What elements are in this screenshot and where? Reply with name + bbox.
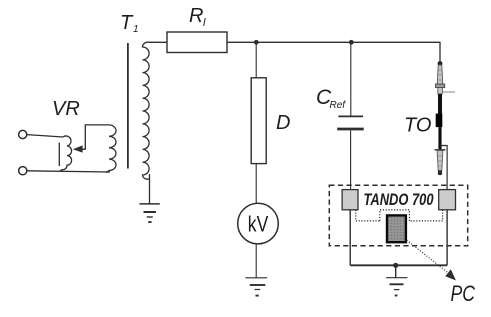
- wire kV to ground: [255, 244, 257, 278]
- transformer T1 core: [127, 43, 129, 169]
- wire D to kV meter: [255, 164, 257, 204]
- wire resistor to TO corner (top bus): [227, 42, 440, 62]
- measuring unit TANDO center: [387, 215, 406, 242]
- wire top terminal to variac winding: [27, 135, 63, 137]
- TANDO 700 dashed enclosure: [329, 185, 467, 246]
- svg-text:T: T: [120, 12, 134, 34]
- svg-text:TO: TO: [404, 115, 431, 137]
- svg-text:R: R: [189, 5, 203, 27]
- wire secondary to ground: [149, 174, 151, 204]
- wire wiper to T1 primary: [82, 125, 109, 149]
- ground kV meter: [245, 278, 267, 296]
- transformer T1 primary winding: [106, 125, 116, 172]
- meter kV: [238, 203, 279, 244]
- supply terminal top: [19, 130, 27, 138]
- wire node B to capacitor: [350, 42, 352, 115]
- svg-text:VR: VR: [52, 98, 80, 120]
- node A: [254, 40, 259, 45]
- dotted signal links: [356, 210, 443, 221]
- ground T1: [139, 204, 159, 222]
- svg-text:1: 1: [133, 24, 139, 35]
- wire capacitor to left sensor: [350, 130, 352, 190]
- resistor Rl: [167, 32, 227, 53]
- divider D: [251, 78, 266, 164]
- svg-text:kV: kV: [248, 211, 269, 236]
- svg-text:l: l: [203, 17, 206, 29]
- node B: [349, 40, 354, 45]
- svg-text:TANDO 700: TANDO 700: [364, 190, 434, 209]
- wire bottom terminal to T1 primary bottom: [27, 171, 110, 172]
- variac winding VR: [59, 136, 71, 171]
- svg-text:D: D: [276, 112, 290, 134]
- svg-text:Ref: Ref: [330, 100, 347, 111]
- variac wiper arrow: [73, 145, 83, 152]
- supply terminal bottom: [19, 167, 27, 175]
- arrow to PC: [405, 239, 457, 281]
- wire node C to ground: [395, 265, 397, 277]
- ground TANDO: [386, 278, 407, 296]
- wire TO to right sensor: [440, 146, 447, 191]
- node C: [393, 263, 398, 268]
- right sensor TANDO: [439, 190, 456, 210]
- test object TO: [435, 61, 455, 175]
- ground bus wire: [350, 264, 447, 266]
- transformer T1 secondary winding: [143, 42, 168, 179]
- wire right sensor to bus: [446, 210, 448, 265]
- wire left sensor to bus: [349, 210, 351, 265]
- svg-text:PC: PC: [451, 281, 476, 306]
- capacitor CRef: [337, 116, 364, 129]
- wire node A to divider D: [255, 42, 257, 78]
- left sensor TANDO: [342, 190, 358, 210]
